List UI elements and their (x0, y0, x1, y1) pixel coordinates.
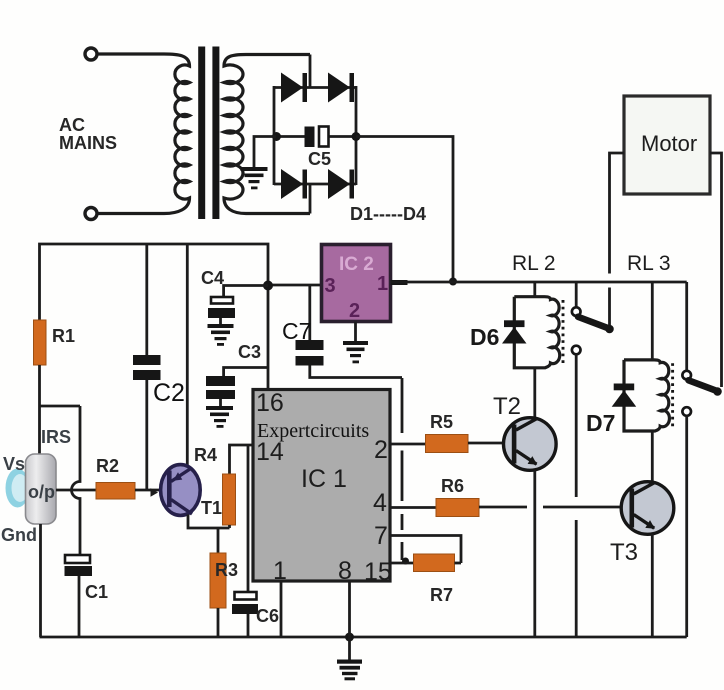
relay RL2 coil (514, 297, 559, 368)
IC 1 box (253, 390, 390, 582)
transformer T primary winding (98, 54, 190, 214)
transformer core (198, 47, 205, 220)
svg-text:IC 1: IC 1 (301, 465, 347, 493)
wire RL3 coil bottom to T3 (651, 431, 654, 482)
wire R7 right (455, 562, 462, 565)
transformer T secondary winding (224, 55, 310, 214)
svg-text:R5: R5 (430, 412, 453, 432)
svg-text:2: 2 (374, 436, 388, 464)
wire motor left (610, 153, 625, 325)
diode D3 (281, 169, 307, 199)
wire R4 bottom (228, 525, 231, 528)
wire C3 branch (224, 368, 268, 377)
AC mains terminal bottom (85, 208, 97, 220)
node ground rail junction (345, 633, 354, 642)
svg-text:14: 14 (256, 438, 284, 466)
wire R3 bottom (217, 608, 220, 637)
motor box (624, 96, 710, 194)
wire R4 top link / pin14 (230, 445, 254, 474)
diode D2 (328, 73, 354, 103)
svg-text:T1: T1 (201, 498, 222, 518)
wire IRS top link (40, 405, 81, 408)
capacitor C2 (133, 355, 161, 380)
capacitor C7 (296, 340, 324, 366)
svg-text:Gnd: Gnd (1, 525, 37, 545)
wire bridge left rail (273, 86, 276, 185)
wire o/p column with hop (72, 406, 81, 555)
wire RL3 coil top (651, 282, 654, 360)
resistor R3 (210, 553, 226, 608)
wire RL2 coil bottom to T2 (533, 368, 536, 418)
wire R5 to T2 base (468, 442, 514, 445)
svg-text:R1: R1 (52, 326, 75, 346)
wire sensor o/p to R2 (56, 489, 96, 492)
svg-text:15: 15 (364, 558, 392, 586)
wire pin8 down (348, 581, 351, 637)
wire R6 right segment (479, 506, 527, 509)
node C4 junction (263, 281, 273, 291)
wire T3 emitter down (651, 534, 654, 637)
wire bridge bottom row (274, 183, 356, 186)
wire IC2 pin2 to ground (354, 322, 357, 342)
svg-text:o/p: o/p (28, 482, 55, 502)
wire C7 branch (308, 285, 311, 340)
diode D7 (612, 384, 637, 407)
wire C2 bottom (145, 380, 148, 490)
RL3 switch contact bottom (682, 407, 691, 416)
svg-text:R2: R2 (96, 456, 119, 476)
IC 2 regulator box (322, 245, 391, 322)
RL3 switch arm (689, 380, 718, 391)
wire T1 emitter to top rail (186, 244, 189, 466)
wire bridge top row (274, 86, 356, 89)
wire RL2 coil top (533, 282, 536, 297)
relay RL3 coil (624, 360, 669, 431)
capacitor C6 (232, 592, 258, 614)
wire motor right (710, 153, 722, 387)
svg-text:3: 3 (325, 275, 336, 297)
resistor R7 (414, 554, 455, 572)
wire RL2 switch pole (575, 282, 578, 307)
svg-text:R7: R7 (430, 585, 453, 605)
svg-text:IRS: IRS (41, 427, 71, 447)
wire IC2 pin3 (268, 284, 322, 287)
wire RL3 switch pole (685, 282, 688, 371)
wire C7 bottom (310, 366, 402, 378)
resistor R4 (223, 474, 236, 525)
wire pin4 to R6 (390, 506, 436, 509)
node bridge right junction (352, 132, 361, 141)
wire C2 column (145, 244, 148, 355)
AC mains terminal top (85, 48, 97, 60)
RL2 switch arm (578, 317, 609, 329)
svg-text:D6: D6 (470, 324, 499, 350)
svg-text:Vs: Vs (3, 454, 25, 474)
wire C1 bottom (78, 576, 81, 637)
diode D1 (281, 73, 307, 103)
wire supply rail (391, 281, 687, 284)
resistor R5 (426, 435, 469, 453)
wire sensor gnd down (39, 524, 42, 637)
wire bridge output to supply rail (356, 137, 453, 283)
svg-text:AC: AC (59, 115, 85, 135)
svg-text:RL 3: RL 3 (627, 252, 671, 275)
relay RL3 core dotted (671, 363, 674, 427)
svg-text:T3: T3 (610, 539, 638, 566)
IR sensor glow (6, 469, 30, 508)
capacitor C1 (65, 555, 93, 576)
wire R3 stub (217, 528, 220, 553)
wire to T3 base (543, 506, 632, 509)
svg-text:T2: T2 (493, 393, 521, 420)
wire secondary bottom to bridge (309, 184, 312, 214)
wire pin1 down (280, 581, 283, 637)
wire R2 to T1 base (135, 489, 167, 492)
wire bridge middle row (274, 135, 305, 138)
ground symbol near transformer (241, 167, 268, 189)
svg-text:C4: C4 (201, 268, 224, 288)
svg-text:R3: R3 (215, 560, 238, 580)
wire IC2 pin1 stub (391, 280, 408, 285)
ground C4 (219, 318, 222, 324)
transistor T1 (161, 465, 201, 516)
diode D4 (328, 169, 354, 199)
RL2 switch contact bottom (572, 346, 581, 355)
svg-text:7: 7 (374, 522, 388, 550)
resistor R2 (96, 483, 135, 500)
wire T1 collector down (188, 515, 230, 529)
wire RL2 NC contact down (575, 354, 578, 637)
svg-text:MAINS: MAINS (59, 133, 117, 153)
svg-text:4: 4 (373, 489, 387, 517)
svg-text:C2: C2 (153, 379, 185, 407)
node dash end dot (402, 558, 409, 565)
wire to ground from bridge (254, 137, 276, 168)
ground IC2 (343, 341, 368, 363)
svg-text:8: 8 (338, 557, 352, 585)
wire pin7 loop (390, 536, 461, 564)
svg-text:C1: C1 (85, 582, 108, 602)
capacitor C4 (208, 297, 235, 318)
svg-text:1: 1 (273, 557, 287, 585)
svg-text:16: 16 (256, 389, 284, 417)
wire bridge right rail (355, 86, 358, 185)
svg-text:Motor: Motor (641, 131, 697, 156)
svg-text:2: 2 (349, 300, 360, 322)
resistor R1 (34, 320, 47, 365)
svg-text:C7: C7 (282, 318, 311, 344)
wire R1 to sensor (38, 365, 41, 454)
svg-text:C5: C5 (308, 149, 331, 169)
relay RL2 core dotted (562, 300, 565, 364)
ground symbol main (348, 637, 351, 660)
svg-text:D1-----D4: D1-----D4 (350, 204, 426, 224)
node bridge left junction (272, 132, 281, 141)
ground C3 (219, 399, 222, 406)
wire top supply rail left (40, 244, 269, 390)
svg-text:C6: C6 (256, 606, 279, 626)
wire T2 emitter down (533, 470, 536, 637)
wire C6 column (247, 445, 250, 592)
diode D6 (502, 320, 527, 343)
wire secondary top to bridge (309, 55, 312, 88)
capacitor C5 (305, 127, 329, 148)
wire ground rail bottom (40, 636, 687, 639)
transistor T3 (621, 482, 674, 535)
node base junction arrow (151, 488, 159, 496)
wire pin15 to R7 (390, 562, 414, 565)
svg-text:RL 2: RL 2 (512, 252, 556, 275)
wire pin2 to R5 (390, 443, 426, 446)
svg-text:1: 1 (377, 273, 388, 295)
node supply junction (449, 278, 457, 286)
svg-text:D7: D7 (586, 410, 615, 436)
transistor T2 (504, 418, 557, 471)
capacitor C3 (206, 376, 235, 399)
svg-text:R4: R4 (194, 445, 217, 465)
dashed line right of IC1 (401, 378, 404, 560)
svg-text:C3: C3 (238, 342, 261, 362)
wire C4 branch (224, 286, 268, 298)
resistor R6 (436, 499, 479, 517)
wire C6 bottom (247, 614, 250, 637)
RL2 switch contact top (572, 307, 581, 316)
svg-text:IC 2: IC 2 (339, 254, 374, 275)
RL3 switch contact top (682, 371, 691, 380)
wire RL3 NC contact down (685, 416, 688, 637)
svg-text:R6: R6 (441, 476, 464, 496)
